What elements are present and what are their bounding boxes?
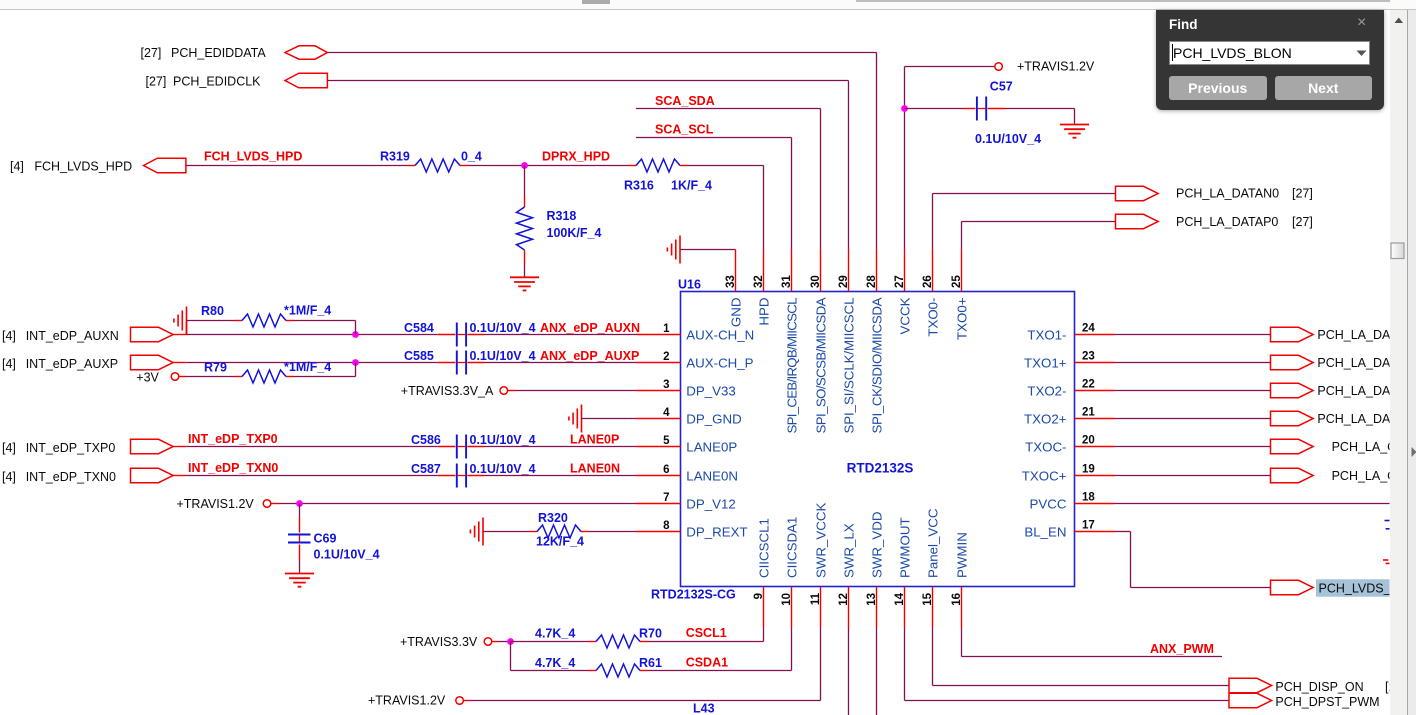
svg-text:SWR_VCCK: SWR_VCCK <box>814 503 829 578</box>
svg-text:CIICSCL1: CIICSCL1 <box>757 518 772 578</box>
svg-text:R318: R318 <box>547 209 577 223</box>
svg-text:TXO0-: TXO0- <box>926 298 941 337</box>
svg-text:0.1U/10V_4: 0.1U/10V_4 <box>470 321 536 335</box>
svg-text:1: 1 <box>663 323 670 335</box>
svg-text:[4]: [4] <box>2 470 16 484</box>
svg-text:[4]: [4] <box>10 159 24 173</box>
svg-text:INT_eDP_AUXN: INT_eDP_AUXN <box>26 329 119 343</box>
svg-text:18: 18 <box>1082 492 1095 504</box>
svg-text:TXOC-: TXOC- <box>1025 439 1066 454</box>
svg-text:12K/F_4: 12K/F_4 <box>536 535 584 549</box>
svg-text:17: 17 <box>1082 520 1095 532</box>
svg-text:100K/F_4: 100K/F_4 <box>547 226 602 240</box>
svg-text:[27]: [27] <box>141 46 162 60</box>
svg-text:*1M/F_4: *1M/F_4 <box>284 360 331 374</box>
svg-text:ANX_eDP_AUXP: ANX_eDP_AUXP <box>540 349 639 363</box>
svg-text:7: 7 <box>663 492 669 504</box>
svg-text:R320: R320 <box>538 511 568 525</box>
svg-text:PCH_EDIDDATA: PCH_EDIDDATA <box>171 46 266 60</box>
svg-text:4.7K_4: 4.7K_4 <box>535 656 575 670</box>
svg-text:INT_eDP_AUXP: INT_eDP_AUXP <box>26 357 118 371</box>
svg-text:R79: R79 <box>204 361 227 375</box>
svg-text:PCH_LA_DATAP0: PCH_LA_DATAP0 <box>1176 215 1278 229</box>
svg-text:GND: GND <box>729 298 744 328</box>
svg-text:*1M/F_4: *1M/F_4 <box>284 304 331 318</box>
svg-text:BL_EN: BL_EN <box>1024 524 1066 539</box>
svg-text:+TRAVIS1.2V: +TRAVIS1.2V <box>1017 60 1095 74</box>
svg-text:SWR_VDD: SWR_VDD <box>870 512 885 579</box>
svg-text:PCH_DISP_ON: PCH_DISP_ON <box>1275 680 1363 694</box>
svg-text:20: 20 <box>1082 435 1095 447</box>
svg-text:0.1U/10V_4: 0.1U/10V_4 <box>314 547 380 561</box>
svg-text:+TRAVIS3.3V: +TRAVIS3.3V <box>400 635 478 649</box>
svg-text:VCCK: VCCK <box>898 297 913 334</box>
svg-text:C584: C584 <box>404 321 434 335</box>
svg-text:[27]: [27] <box>146 75 167 89</box>
svg-text:[27]: [27] <box>1292 215 1313 229</box>
svg-text:21: 21 <box>1082 407 1095 419</box>
svg-text:[4]: [4] <box>2 441 16 455</box>
svg-text:RTD2132S-CG: RTD2132S-CG <box>651 588 736 602</box>
svg-text:6: 6 <box>663 464 669 476</box>
svg-text:SCA_SDA: SCA_SDA <box>655 94 715 108</box>
svg-text:C587: C587 <box>411 462 441 476</box>
svg-text:2: 2 <box>663 351 669 363</box>
svg-text:4: 4 <box>663 407 670 419</box>
svg-text:FCH_LVDS_HPD: FCH_LVDS_HPD <box>204 150 302 164</box>
svg-text:3: 3 <box>663 379 669 391</box>
svg-text:PWMOUT: PWMOUT <box>898 517 913 578</box>
svg-text:SPI_CK/SDIO/MIICSDA: SPI_CK/SDIO/MIICSDA <box>870 297 885 433</box>
svg-text:HPD: HPD <box>757 298 772 326</box>
svg-text:PCH_EDIDCLK: PCH_EDIDCLK <box>173 75 261 89</box>
svg-text:R319: R319 <box>380 150 410 164</box>
svg-text:LANE0N: LANE0N <box>570 462 620 476</box>
svg-text:L43: L43 <box>693 701 715 715</box>
svg-text:[27]: [27] <box>1292 187 1313 201</box>
svg-text:SWR_LX: SWR_LX <box>842 523 857 578</box>
svg-text:R61: R61 <box>639 656 662 670</box>
svg-text:0.1U/10V_4: 0.1U/10V_4 <box>470 433 536 447</box>
svg-text:8: 8 <box>663 520 670 532</box>
svg-text:DP_REXT: DP_REXT <box>686 524 747 539</box>
svg-text:PVCC: PVCC <box>1030 496 1067 511</box>
svg-text:0.1U/10V_4: 0.1U/10V_4 <box>470 349 536 363</box>
svg-text:U16: U16 <box>678 278 701 292</box>
svg-text:0_4: 0_4 <box>461 150 482 164</box>
svg-text:5: 5 <box>663 435 670 447</box>
svg-text:CSDA1: CSDA1 <box>686 656 728 670</box>
svg-text:INT_eDP_TXN0: INT_eDP_TXN0 <box>188 461 278 475</box>
svg-text:PCH_DPST_PWM: PCH_DPST_PWM <box>1275 695 1379 709</box>
svg-text:PCH_LA_DATAN0: PCH_LA_DATAN0 <box>1176 187 1279 201</box>
svg-text:LANE0P: LANE0P <box>570 433 619 447</box>
svg-text:INT_eDP_TXP0: INT_eDP_TXP0 <box>26 441 116 455</box>
svg-text:+TRAVIS3.3V_A: +TRAVIS3.3V_A <box>401 384 494 398</box>
svg-text:+TRAVIS1.2V: +TRAVIS1.2V <box>368 693 446 707</box>
svg-text:22: 22 <box>1082 379 1095 391</box>
svg-text:TXO1-: TXO1- <box>1027 327 1066 342</box>
svg-text:TXO2+: TXO2+ <box>1024 411 1067 426</box>
svg-text:AUX-CH_N: AUX-CH_N <box>686 327 754 342</box>
svg-text:ANX_PWM: ANX_PWM <box>1150 642 1214 656</box>
svg-text:23: 23 <box>1082 351 1095 363</box>
svg-text:SPI_SI/SCLK/MIICSCL: SPI_SI/SCLK/MIICSCL <box>842 298 857 434</box>
svg-text:LANE0P: LANE0P <box>686 439 737 454</box>
svg-text:0.1U/10V_4: 0.1U/10V_4 <box>470 462 536 476</box>
svg-text:Panel_VCC: Panel_VCC <box>926 508 941 578</box>
svg-text:DPRX_HPD: DPRX_HPD <box>542 150 610 164</box>
svg-text:[4]: [4] <box>2 329 16 343</box>
svg-text:CSCL1: CSCL1 <box>686 626 727 640</box>
svg-text:AUX-CH_P: AUX-CH_P <box>686 355 753 370</box>
svg-text:LANE0N: LANE0N <box>686 468 738 483</box>
svg-text:+TRAVIS1.2V: +TRAVIS1.2V <box>177 497 255 511</box>
svg-text:C57: C57 <box>990 80 1013 94</box>
svg-text:SPI_SO/SCSB/MIICSDA: SPI_SO/SCSB/MIICSDA <box>814 297 829 433</box>
svg-text:R70: R70 <box>639 627 662 641</box>
svg-text:TXO0+: TXO0+ <box>955 297 970 340</box>
svg-text:TXO2-: TXO2- <box>1027 383 1066 398</box>
svg-text:19: 19 <box>1082 464 1095 476</box>
svg-text:TXO1+: TXO1+ <box>1024 355 1067 370</box>
svg-text:R316: R316 <box>624 179 654 193</box>
svg-text:ANX_eDP_AUXN: ANX_eDP_AUXN <box>540 321 640 335</box>
svg-text:SPI_CEB/IRQB/MIICSCL: SPI_CEB/IRQB/MIICSCL <box>785 298 800 434</box>
svg-text:PWMIN: PWMIN <box>955 532 970 578</box>
svg-text:CIICSDA1: CIICSDA1 <box>785 517 800 578</box>
svg-text:DP_GND: DP_GND <box>686 411 741 426</box>
svg-text:4.7K_4: 4.7K_4 <box>535 627 575 641</box>
svg-text:C69: C69 <box>314 532 337 546</box>
svg-text:[4]: [4] <box>2 357 16 371</box>
svg-text:R80: R80 <box>201 304 224 318</box>
svg-text:C586: C586 <box>411 433 441 447</box>
svg-text:TXOC+: TXOC+ <box>1022 468 1067 483</box>
svg-text:FCH_LVDS_HPD: FCH_LVDS_HPD <box>34 159 132 173</box>
svg-text:C585: C585 <box>404 349 434 363</box>
svg-text:RTD2132S: RTD2132S <box>847 461 914 476</box>
svg-text:DP_V33: DP_V33 <box>686 383 736 398</box>
svg-text:INT_eDP_TXN0: INT_eDP_TXN0 <box>26 470 116 484</box>
svg-text:+3V: +3V <box>136 370 159 384</box>
svg-text:SCA_SCL: SCA_SCL <box>655 123 714 137</box>
svg-text:24: 24 <box>1082 323 1095 335</box>
svg-text:0.1U/10V_4: 0.1U/10V_4 <box>975 132 1041 146</box>
svg-text:DP_V12: DP_V12 <box>686 496 736 511</box>
svg-text:1K/F_4: 1K/F_4 <box>671 179 712 193</box>
svg-text:INT_eDP_TXP0: INT_eDP_TXP0 <box>188 432 278 446</box>
